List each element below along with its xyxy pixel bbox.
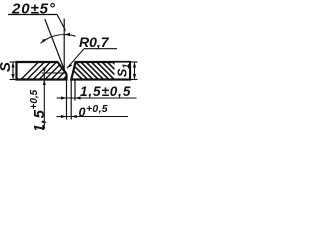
svg-text:R0,7: R0,7 xyxy=(79,34,110,50)
svg-text:1,5±0,5: 1,5±0,5 xyxy=(80,84,131,99)
R0,7 shelf xyxy=(84,48,117,50)
R0,7 leader xyxy=(67,49,84,68)
right plate hatching xyxy=(59,56,137,86)
S dimension (left thickness) xyxy=(10,62,17,80)
mask hatch right of x=114.5 for S1 label area xyxy=(115,63,130,79)
S1 dimension (right thickness) xyxy=(130,62,138,80)
leader for 20±5° xyxy=(57,15,66,31)
extension line right plate top corner xyxy=(74,81,76,101)
svg-text:S: S xyxy=(0,62,14,72)
svg-text:1: 1 xyxy=(121,64,131,69)
left plate outline xyxy=(17,62,67,80)
S1 label xyxy=(116,64,132,77)
dimension line 0+0,5 xyxy=(57,116,129,118)
angle vertical extension line xyxy=(63,19,65,72)
dimension line 1,5±0,5 xyxy=(57,97,137,99)
angle arc xyxy=(41,35,76,44)
svg-text:1,5: 1,5 xyxy=(31,109,48,130)
left plate hatching xyxy=(15,56,87,86)
right plate outline xyxy=(71,62,130,80)
svg-text:+0,5: +0,5 xyxy=(29,89,40,109)
svg-text:20±5°: 20±5° xyxy=(11,1,56,18)
R0,7 leader arrowhead xyxy=(67,64,72,69)
svg-text:0: 0 xyxy=(79,106,86,120)
0+0,5 label xyxy=(79,103,108,120)
vertical dimension line 1,5+0,5 xyxy=(43,73,45,129)
extension line root right xyxy=(70,81,72,120)
arc arrow left (tip on bevel line) xyxy=(42,39,48,43)
svg-text:+0,5: +0,5 xyxy=(86,103,108,115)
extension line root left xyxy=(66,81,68,120)
bevel extension line xyxy=(45,19,65,71)
root face extension tick (left) xyxy=(42,72,67,74)
1,5+0,5 rotated label xyxy=(29,89,48,132)
arc arrow right (tip on vertical line) xyxy=(64,33,70,36)
shelf for 20±5° xyxy=(8,14,57,16)
